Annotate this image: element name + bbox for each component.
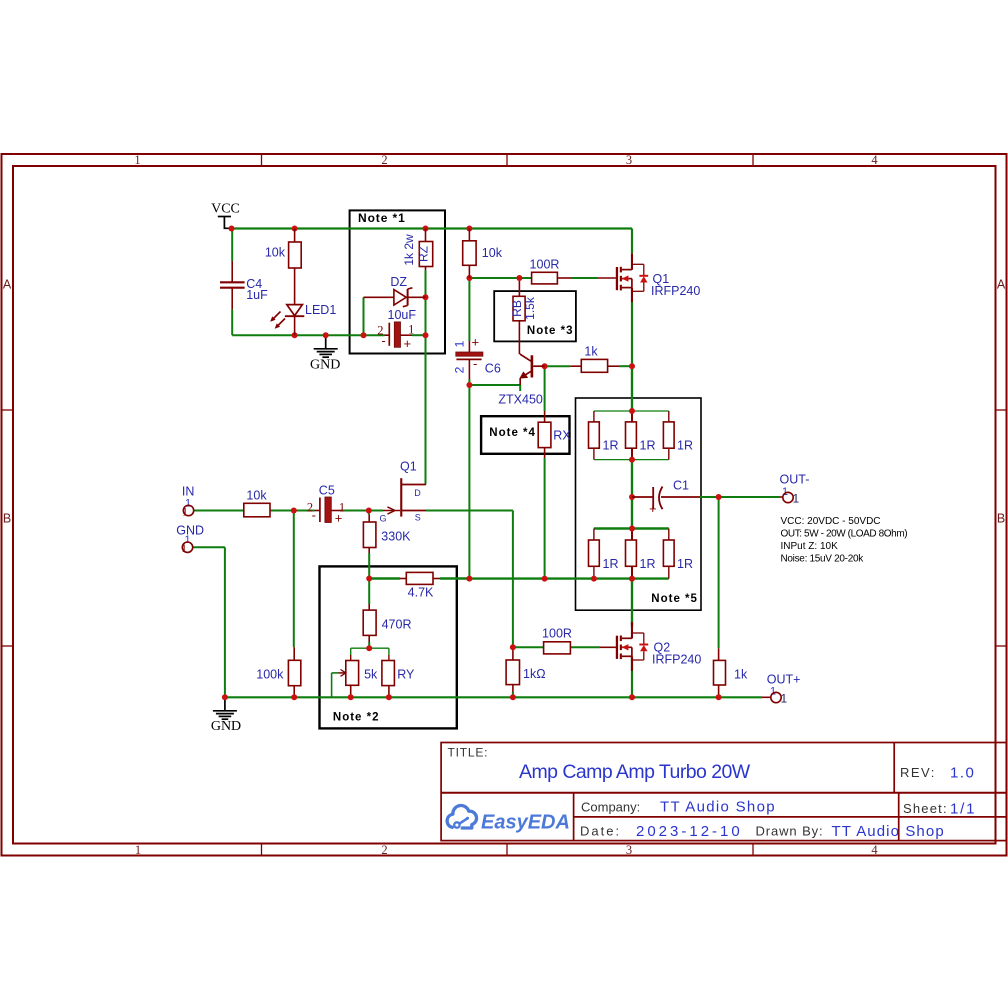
junction VCC rail / RZ [423,226,429,232]
frame row ticks left [2,409,14,411]
svg-text:Drawn By:: Drawn By: [756,824,824,839]
svg-text:3: 3 [626,843,632,857]
transistor ZTX450 (bias) [531,355,534,377]
svg-text:1R: 1R [603,439,619,453]
wire main vertical to Q2 drain [631,579,633,627]
svg-text:4.7K: 4.7K [408,586,434,600]
wire 1R bank2 outer leads [593,529,595,541]
svg-text:RB: RB [510,300,524,317]
junction 1R bank1 bottom [629,457,635,463]
svg-text:1kΩ: 1kΩ [523,667,546,681]
wire input node down to 100k [293,511,295,648]
wire C6 node to ZTX emitter [469,384,520,386]
wire 1kohm bottom lead [512,685,514,692]
wire C6 node down long vertical [468,385,470,579]
title block frame [441,743,1006,841]
wire long drop to JFET drain [425,335,427,484]
svg-text:EasyEDA: EasyEDA [481,812,570,834]
resistor 10k (second) with leads [468,229,470,241]
wire 1R bank1 bottom bus [594,459,669,461]
svg-text:100R: 100R [542,627,572,641]
svg-text:1: 1 [135,843,141,857]
junction 1R bank2 top [629,526,635,532]
svg-text:1: 1 [793,492,800,506]
frame row ticks right [996,409,1007,411]
wire 1R bank2 top bus [594,527,669,529]
wire RZ bottom to DZ node [425,270,427,297]
wire GND rail mid (4.7K node to 1R bank) [469,577,594,579]
svg-text:-: - [473,356,477,371]
wire 10k to C5 [270,510,294,512]
resistor 1kohm [506,660,519,685]
svg-text:1: 1 [453,340,467,347]
svg-text:1R: 1R [677,439,693,453]
wire Q2 source to rail [631,657,633,698]
svg-text:C1: C1 [673,479,689,493]
svg-text:Note *4: Note *4 [489,427,536,439]
svg-text:RX: RX [553,429,571,443]
junction C1 left [629,494,635,500]
svg-text:1.0: 1.0 [950,765,975,782]
wire C4 bottom lead [231,288,233,310]
junction VCC rail / 10k2 [466,226,472,232]
svg-text:2: 2 [381,843,387,857]
junction bank2 mid [629,576,635,582]
svg-text:100R: 100R [530,258,560,272]
wire DZ anode drop [363,297,365,335]
wire 470R top lead [368,579,370,605]
resistor 4.7K [406,572,433,584]
resistor 1R bank2 right [663,540,674,566]
svg-text:1: 1 [134,153,140,167]
svg-text:1R: 1R [677,557,693,571]
wire 1R bank1 outer leads [593,411,595,422]
capacitor 10uF (Note 1) polarized [388,323,390,346]
svg-text:INPut Z: 10K: INPut Z: 10K [781,541,839,552]
resistor 330K [363,522,376,548]
junction gnd wire / RX col [542,576,548,582]
svg-text:-: - [312,508,316,523]
junction ZTX base node [542,363,548,369]
junction DZ cathode [423,294,429,300]
resistor 1R bank2 left [589,540,600,566]
junction GND symbol tap [323,332,329,338]
wire C6 top lead [468,278,470,341]
wire C5 right lead [331,510,342,512]
svg-text:1R: 1R [640,557,656,571]
wire 470R bottom lead [368,635,370,642]
svg-text:2023-12-10: 2023-12-10 [636,823,743,840]
junction bank2 left [591,576,597,582]
svg-text:1.5k: 1.5k [523,296,537,320]
svg-text:GND: GND [310,358,340,373]
junction DZ anode rail [361,332,367,338]
wire JFET source to 1kohm column [426,510,513,512]
svg-text:10k: 10k [482,246,503,260]
resistor 1R bank1 right [663,422,674,448]
svg-text:TT Audio Shop: TT Audio Shop [832,823,945,840]
junction Q2 gate node [510,644,516,650]
svg-text:4: 4 [871,153,878,167]
resistor 10k (input) [244,503,270,517]
svg-text:Note *3: Note *3 [527,325,574,337]
note box Note *5 [576,398,702,610]
svg-text:ZTX450: ZTX450 [498,393,543,407]
wire RY bottom lead [388,686,390,698]
svg-text:1uF: 1uF [246,288,268,302]
wire 1R bank2 mid leads [631,529,633,541]
svg-text:+: + [404,336,412,351]
svg-text:IRFP240: IRFP240 [652,653,701,667]
sheet frame inner border [13,166,996,844]
svg-text:Note *2: Note *2 [333,712,380,724]
junction rail 1k out [716,694,722,700]
junction C1 right / OUT- [716,494,722,500]
svg-text:Amp Camp Amp Turbo 20W: Amp Camp Amp Turbo 20W [519,761,751,783]
wire C6 bottom lead [468,360,470,379]
svg-text:IN: IN [182,485,195,499]
svg-text:B: B [3,512,11,526]
svg-text:Date:: Date: [580,824,621,839]
junction LED cathode [292,332,298,338]
svg-text:Note *1: Note *1 [358,211,406,225]
svg-text:GND: GND [211,719,241,734]
note box Note *4 [481,416,569,454]
svg-text:1R: 1R [640,439,656,453]
wire Q2 gate row [513,646,544,648]
svg-text:Company:: Company: [581,800,640,815]
resistor 1k (output) [714,660,726,685]
wire ZTX base row to 1k [545,365,571,367]
svg-text:10uF: 10uF [388,308,417,322]
svg-text:2: 2 [453,366,467,373]
capacitor C4 1uF [220,281,245,283]
svg-text:IRFP240: IRFP240 [651,284,700,298]
wire 1k to main vertical [608,365,619,367]
svg-text:2: 2 [381,153,387,167]
junction 470R bottom [366,645,372,651]
LED1 emission arrows [273,312,281,320]
svg-text:1: 1 [781,692,788,706]
svg-text:C5: C5 [319,484,335,498]
svg-text:470R: 470R [382,618,412,632]
wire VCC top rail [232,227,633,229]
wire LED cathode rail [232,334,384,336]
svg-text:+: + [649,501,657,516]
wire bottom GND rail [225,696,762,698]
junction 1R bank1 top [629,408,635,414]
junction 10k2/C6 [466,275,472,281]
svg-text:10k: 10k [265,246,286,260]
junction VCC rail / 10k [292,226,298,232]
wire 10uF right lead [401,334,413,336]
svg-text:+: + [335,511,343,526]
resistor 1R bank1 mid [626,422,637,448]
svg-text:A: A [3,278,12,292]
wire DZ node down to cap node [425,297,427,335]
svg-text:330K: 330K [381,530,411,544]
svg-text:VCC: VCC [211,202,240,217]
svg-text:OUT-: OUT- [780,473,810,487]
wire OUT- node down to 1k [718,497,720,648]
wire 1k out bottom lead [718,685,720,697]
resistor 100k [288,660,300,685]
junction rail 5k [348,694,354,700]
wire 10k2 row [469,277,531,279]
wire pot wiper drop [332,672,339,674]
svg-text:10k: 10k [246,489,267,503]
svg-text:-: - [381,333,385,348]
junction gnd wire / C6 col [466,576,472,582]
capacitor C5 polarized [319,498,321,523]
capacitor C1 polarized [632,496,653,498]
junction rail RY [386,694,392,700]
svg-text:D: D [414,488,421,498]
wire GND terminal route [193,546,225,548]
svg-text:A: A [997,278,1006,292]
junction 330K/4.7K/470R [366,576,372,582]
LED LED1 [287,305,303,316]
wire 5k pot bottom lead [350,685,352,697]
junction 1k / main [629,363,635,369]
potentiometer 5k with wiper [346,661,359,686]
wire base node down to RX [544,366,546,411]
svg-text:1R: 1R [603,557,619,571]
svg-text:1k: 1k [584,345,598,359]
resistor 1R bank1 left [589,422,600,448]
sheet frame outer border [2,154,1007,856]
junction C6 bottom [466,382,472,388]
frame column ticks top [261,154,263,166]
wire 1R bank1 mid leads [631,411,633,422]
svg-text:RZ: RZ [417,246,431,262]
svg-text:Q1: Q1 [400,460,417,474]
capacitor C6 10uF polarized [456,352,483,356]
resistor 1R bank2 mid [626,540,637,566]
junction input / 100k [291,508,297,514]
resistor 1k (bias) [581,359,607,372]
wire 100R top to Q1 gate [557,277,572,279]
svg-text:1: 1 [408,323,414,337]
junction cap1 rail [423,332,429,338]
svg-text:1k 2w: 1k 2w [402,234,416,266]
resistor RZ 1k 2w with leads [425,229,427,242]
wire IN terminal to 10k [194,510,244,512]
frame column ticks bottom [261,844,263,856]
transistor Q2 IRFP240 (power MOSFET) [616,622,648,671]
resistor 470R [363,610,376,635]
svg-text:TT Audio Shop: TT Audio Shop [660,799,776,816]
resistor 10k (LED) with lead [294,229,296,243]
wire 1R bank1 top bus [594,410,669,412]
wire 1kohm top lead [512,647,514,660]
wire main vertical Q1 drain top [631,229,633,254]
svg-text:B: B [997,512,1005,526]
wire C1 right to OUT- [700,496,719,498]
resistor RB 1.5k [513,296,525,321]
svg-text:VCC: 20VDC - 50VDC: VCC: 20VDC - 50VDC [781,516,881,527]
wire RB top lead [518,278,520,296]
svg-text:5k: 5k [364,668,378,682]
resistor RY [382,661,395,686]
wire C4 top lead [231,229,233,262]
wire main vertical to 1R bank1 [631,366,633,411]
svg-text:RY: RY [397,668,415,682]
wire 4.7K row [369,577,400,579]
svg-text:100k: 100k [256,668,284,682]
power symbol VCC [218,216,231,218]
wire RX bottom down to GND rail [544,448,546,458]
svg-text:C6: C6 [485,362,501,376]
transistor Q1 IRFP240 (power MOSFET) [616,253,648,302]
svg-text:TITLE:: TITLE: [448,746,489,760]
junction C5 / 330K / gate [366,508,372,514]
svg-text:S: S [415,513,421,523]
junction RB tap [516,275,522,281]
zener diode DZ [364,296,394,298]
svg-text:LED1: LED1 [305,303,336,317]
ground symbol GND (LED) [325,335,327,348]
wire 330K bottom to 4.7K node [368,548,370,554]
svg-text:OUT+: OUT+ [767,673,801,687]
svg-text:REV:: REV: [900,765,936,780]
svg-text:DZ: DZ [390,275,407,289]
junction VCC rail / C4 [229,226,235,232]
wire JFET gate [369,510,383,512]
ground symbol GND (rail) [224,697,226,710]
junction rail Q2 source [629,694,635,700]
note box Note *3 [494,291,576,341]
svg-text:G: G [380,514,387,524]
resistor 100R (top) [532,272,558,284]
EasyEDA logo [447,805,570,833]
svg-text:1/1: 1/1 [950,801,976,818]
resistor 100R (bottom) [544,642,571,654]
note box Note *2 [320,566,457,728]
svg-text:1k: 1k [734,668,748,682]
svg-text:Noise: 15uV 20-20k: Noise: 15uV 20-20k [781,554,865,565]
svg-text:4: 4 [871,843,878,857]
wire pot bus [351,647,389,649]
wire 1R bank2 bottom bus [594,577,669,579]
svg-text:Note *5: Note *5 [651,593,698,605]
wire 100k bottom lead [293,686,295,698]
svg-text:Sheet:: Sheet: [903,801,948,816]
junction rail 1kohm [510,694,516,700]
note box Note *1 [350,210,445,353]
wire main vertical bank1 to C1 node [631,460,633,529]
wire main vertical Q1 source down [631,302,633,366]
svg-text:3: 3 [626,153,632,167]
svg-text:+: + [472,335,480,350]
wire C5 node down to 330K [368,511,370,515]
junction rail 100k [291,694,297,700]
transistor Q1 JFET (input) [400,478,402,516]
resistor RX [538,422,551,447]
svg-text:OUT: 5W - 20W (LOAD 8Ohm): OUT: 5W - 20W (LOAD 8Ohm) [781,529,908,540]
junction rail GND [222,694,228,700]
wire RB bottom to ZTX collector [518,321,520,354]
